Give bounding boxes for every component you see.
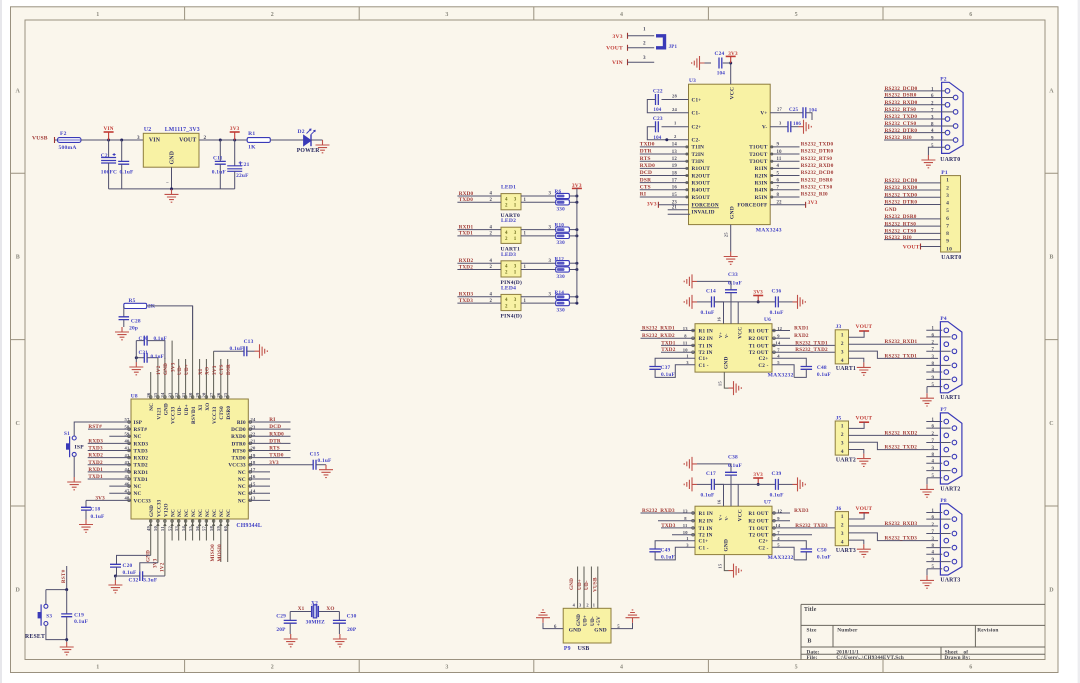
svg-text:0.1uF: 0.1uF: [212, 169, 227, 175]
svg-text:VOUT: VOUT: [903, 244, 920, 250]
svg-text:C36: C36: [772, 288, 782, 294]
svg-text:J5: J5: [836, 415, 842, 421]
wire P8 pin5 ground drop: [926, 569, 928, 576]
svg-text:2K: 2K: [148, 304, 156, 310]
svg-text:TXD1: TXD1: [459, 231, 474, 237]
svg-text:46: 46: [125, 481, 130, 486]
svg-text:RS232_RTS0: RS232_RTS0: [885, 107, 917, 113]
svg-text:NC: NC: [171, 509, 177, 517]
svg-text:RTS0: RTS0: [232, 448, 246, 454]
svg-text:GND: GND: [576, 614, 582, 626]
svg-text:6: 6: [946, 216, 949, 222]
svg-text:1: 1: [946, 178, 949, 184]
wire RXD0 net U8 right: [248, 431, 290, 437]
svg-text:UD+: UD+: [184, 404, 190, 415]
svg-text:RST#: RST#: [61, 569, 67, 583]
svg-text:NC: NC: [134, 491, 142, 497]
svg-text:POWER: POWER: [297, 148, 321, 154]
capacitor C38 0.1uF: [697, 455, 743, 507]
svg-text:U3: U3: [689, 78, 696, 84]
svg-text:57: 57: [125, 417, 130, 422]
wire resistors to 3V3 rail: [569, 195, 578, 204]
U8 top net labels: [156, 362, 232, 375]
svg-text:3: 3: [946, 193, 949, 199]
svg-text:GND: GND: [885, 207, 897, 213]
svg-text:49: 49: [146, 526, 151, 531]
wire RTS net U8 right: [248, 446, 290, 452]
svg-text:RXD2: RXD2: [459, 258, 474, 264]
svg-text:DCD: DCD: [640, 170, 652, 176]
svg-text:29: 29: [195, 392, 200, 397]
svg-text:NC: NC: [238, 477, 246, 483]
svg-text:T1 IN: T1 IN: [699, 526, 713, 532]
svg-text:1V2: 1V2: [160, 562, 166, 572]
wire TXD0 net U8 right: [248, 453, 290, 459]
svg-text:6: 6: [554, 625, 557, 630]
svg-text:V+: V+: [718, 514, 723, 520]
svg-text:T1OUT: T1OUT: [749, 145, 768, 151]
wire P1 RS232_TXD0 net: [884, 192, 941, 198]
svg-text:22uF: 22uF: [236, 173, 249, 179]
svg-text:File:: File:: [807, 655, 818, 661]
capacitor C50 0.1uF: [772, 536, 831, 561]
svg-text:R1OUT: R1OUT: [692, 166, 711, 172]
ground LED cathode: [316, 140, 330, 153]
svg-text:VOUT: VOUT: [856, 506, 873, 512]
svg-text:48: 48: [125, 496, 130, 501]
net label 3V3 U3 FORCEOFF: [770, 200, 817, 208]
svg-text:52: 52: [167, 526, 172, 531]
svg-text:26: 26: [216, 392, 221, 397]
wire P8 pin stubs: [926, 509, 950, 570]
svg-text:3V3: 3V3: [170, 362, 176, 372]
svg-text:4: 4: [490, 225, 493, 230]
wire TXD1 net U8: [88, 474, 131, 480]
svg-text:RS232_TXD1: RS232_TXD1: [795, 340, 828, 346]
svg-text:RXD3: RXD3: [88, 438, 103, 444]
svg-text:12: 12: [672, 157, 678, 162]
svg-text:R2OUT: R2OUT: [692, 173, 711, 179]
LED block LED3: [501, 252, 523, 286]
wire resistors to 3V3 rail: [569, 228, 578, 237]
svg-text:RS232_DSR0: RS232_DSR0: [801, 177, 833, 183]
svg-text:R2 OUT: R2 OUT: [748, 519, 768, 525]
wire U6 GND pin15: [717, 372, 728, 388]
wire P9 GND pin6: [543, 623, 563, 630]
svg-text:UD-: UD-: [584, 580, 590, 590]
svg-text:MAX3243: MAX3243: [756, 228, 782, 234]
svg-text:0.1uF: 0.1uF: [661, 555, 676, 561]
svg-text:9: 9: [931, 137, 934, 142]
svg-text:UART1: UART1: [836, 366, 856, 372]
svg-text:31: 31: [181, 392, 186, 397]
svg-text:330: 330: [557, 207, 566, 213]
svg-text:NC: NC: [205, 509, 211, 517]
wire U3 RS232_DTR0 net: [770, 149, 833, 155]
svg-text:C33: C33: [728, 272, 738, 278]
svg-text:104: 104: [653, 136, 661, 141]
svg-text:R1: R1: [248, 131, 255, 137]
svg-text:B: B: [1049, 255, 1053, 261]
svg-text:3: 3: [931, 116, 934, 121]
svg-text:RS232_DTR0: RS232_DTR0: [801, 149, 834, 155]
net label RST# vertical: [61, 566, 67, 590]
svg-text:UD+: UD+: [184, 364, 190, 375]
svg-text:R1 OUT: R1 OUT: [748, 329, 768, 335]
svg-text:C17: C17: [706, 471, 716, 477]
svg-text:A: A: [16, 88, 21, 94]
net label 3V3 at JP1 pin1: [613, 33, 628, 40]
svg-text:16: 16: [672, 186, 678, 191]
net label VOUT J6: [849, 506, 873, 519]
wire VUSB to fuse: [55, 139, 58, 141]
svg-text:S1: S1: [64, 431, 70, 437]
wire resistors to 3V3 rail: [569, 295, 578, 304]
capacitor C28 20p: [119, 306, 141, 332]
crystal X2 30MHZ: [290, 600, 339, 625]
svg-text:R4OUT: R4OUT: [692, 188, 711, 194]
ground left of C38: [684, 457, 697, 471]
svg-text:4: 4: [505, 197, 508, 202]
svg-text:10: 10: [777, 150, 783, 155]
wire P7 pin stubs: [926, 418, 950, 479]
svg-text:V+: V+: [718, 332, 723, 338]
svg-text:RS232_DSR0: RS232_DSR0: [885, 93, 917, 99]
svg-text:T1 OUT: T1 OUT: [749, 526, 769, 532]
LED block LED2: [501, 218, 522, 252]
svg-text:8: 8: [931, 123, 934, 128]
svg-text:RS232_TXD3: RS232_TXD3: [885, 536, 918, 542]
resistor 330 second: [521, 299, 569, 314]
wire P2 RS232_CTS0 net: [884, 121, 953, 127]
svg-text:U6: U6: [764, 317, 771, 323]
svg-text:60: 60: [223, 526, 228, 531]
svg-text:VCC: VCC: [738, 327, 744, 339]
capacitor C18 0.1uF on U8 VCC33 pin48: [81, 495, 131, 519]
svg-text:14: 14: [775, 341, 780, 346]
resistor 330 second: [521, 198, 569, 213]
svg-text:5: 5: [795, 665, 798, 671]
svg-text:2: 2: [932, 341, 935, 346]
svg-text:12: 12: [777, 326, 782, 331]
svg-text:7: 7: [932, 348, 935, 353]
svg-text:C:\Users\..\CH9344EVT.Sch: C:\Users\..\CH9344EVT.Sch: [836, 655, 904, 661]
svg-text:PIN4(D): PIN4(D): [501, 313, 523, 320]
svg-text:330: 330: [557, 274, 566, 280]
svg-text:15: 15: [672, 193, 678, 198]
svg-text:VCC33: VCC33: [156, 499, 162, 517]
wire U3 RS232_RXD0 net: [770, 163, 834, 169]
svg-text:5: 5: [932, 565, 935, 570]
svg-text:0.1uF: 0.1uF: [230, 346, 245, 352]
svg-text:RS232_RI0: RS232_RI0: [801, 192, 828, 198]
svg-text:3: 3: [932, 537, 935, 542]
capacitor C48 0.1uF: [772, 354, 831, 379]
svg-text:27: 27: [777, 107, 782, 112]
wire RXD3 to LED4: [457, 292, 501, 298]
resistor 330 second: [521, 232, 569, 247]
svg-text:0.1uF: 0.1uF: [318, 458, 333, 464]
svg-text:3: 3: [549, 192, 552, 197]
svg-text:2: 2: [932, 432, 935, 437]
svg-text:VUSB: VUSB: [593, 577, 599, 592]
svg-text:22: 22: [777, 201, 783, 206]
wire RXD0 to LED1: [457, 191, 501, 197]
connector P1 header UART0: [941, 170, 962, 261]
svg-text:4: 4: [946, 201, 949, 207]
wire RS232 RS232_TXD1 from U6 T1OUT: [772, 340, 840, 346]
svg-text:C23: C23: [653, 116, 663, 122]
svg-text:34: 34: [160, 392, 165, 397]
svg-text:V-: V-: [724, 515, 729, 520]
svg-text:X2: X2: [311, 600, 318, 606]
svg-text:T2IN: T2IN: [692, 152, 705, 158]
jumper JP1: [656, 36, 678, 50]
ground P9 left: [536, 610, 550, 623]
svg-text:3V3: 3V3: [647, 202, 657, 208]
svg-text:RST#: RST#: [88, 424, 102, 430]
svg-text:33: 33: [167, 392, 172, 397]
svg-text:CTS: CTS: [640, 184, 651, 190]
svg-text:TXD2: TXD2: [134, 463, 149, 469]
resistor R10 330: [521, 223, 569, 233]
svg-text:36: 36: [146, 392, 151, 397]
svg-text:9: 9: [777, 143, 780, 148]
svg-text:1: 1: [841, 332, 844, 338]
svg-text:0.1uF: 0.1uF: [728, 463, 743, 469]
svg-text:C: C: [16, 421, 21, 427]
svg-text:20P: 20P: [347, 627, 357, 633]
net label VIN at JP1 pin3: [612, 59, 628, 66]
svg-text:3V3: 3V3: [212, 365, 218, 375]
IC U8 CH9344L body: [131, 394, 262, 530]
svg-text:15: 15: [717, 381, 722, 386]
svg-text:18: 18: [672, 171, 678, 176]
svg-text:DSR: DSR: [640, 177, 651, 183]
net label VOUT P1 pin10: [903, 244, 941, 251]
svg-text:3: 3: [643, 55, 646, 61]
svg-text:0.1uF: 0.1uF: [74, 619, 89, 625]
svg-text:2: 2: [490, 232, 493, 237]
svg-text:GND: GND: [170, 151, 176, 164]
capacitor C49 0.1uF: [649, 536, 695, 561]
ground right of C36: [793, 295, 806, 309]
svg-text:C37: C37: [661, 365, 671, 371]
svg-text:0.1uF: 0.1uF: [154, 336, 168, 342]
svg-text:NC: NC: [198, 509, 204, 517]
svg-text:RS232_TXD1: RS232_TXD1: [885, 353, 918, 359]
svg-text:MISO0: MISO0: [210, 544, 216, 562]
svg-text:0.1uF: 0.1uF: [120, 170, 135, 176]
svg-text:41: 41: [125, 446, 130, 451]
svg-text:47: 47: [125, 488, 130, 493]
svg-text:RI: RI: [640, 192, 646, 198]
svg-text:P8: P8: [940, 498, 946, 504]
svg-text:3: 3: [549, 259, 552, 264]
capacitor C25 104 on V+: [770, 107, 817, 120]
wire U7 R2OUT: [772, 516, 790, 521]
svg-text:330: 330: [557, 307, 566, 313]
svg-text:1: 1: [841, 423, 844, 429]
net label VOUT at JP1 pin2: [606, 45, 627, 52]
svg-text:6: 6: [932, 425, 935, 430]
wire U6 T2IN: [661, 347, 695, 353]
svg-text:0.1uF: 0.1uF: [817, 372, 832, 378]
svg-text:4: 4: [490, 192, 493, 197]
wire U7 GND pin15: [717, 555, 728, 571]
svg-text:4: 4: [932, 460, 935, 465]
switch S3 RESET: [25, 588, 68, 640]
wire LED cathode to ground: [311, 139, 323, 141]
U3 pin entry circles: [686, 146, 773, 198]
svg-text:10: 10: [946, 246, 952, 252]
svg-text:RS232_DTR0: RS232_DTR0: [885, 128, 918, 134]
svg-text:17: 17: [672, 178, 678, 183]
resistor R5 2K: [124, 298, 193, 340]
svg-text:R5IN: R5IN: [755, 195, 768, 201]
svg-text:57: 57: [202, 526, 207, 531]
svg-text:R2IN: R2IN: [755, 173, 768, 179]
svg-text:RXD3: RXD3: [794, 508, 809, 514]
wire TXD to U7 T1IN: [661, 523, 695, 529]
connector P7 DB9 UART2: [940, 407, 962, 492]
svg-text:NC: NC: [149, 403, 155, 411]
svg-text:1: 1: [514, 204, 517, 209]
wire U8 NC46 NC47: [109, 486, 131, 493]
svg-text:1: 1: [593, 603, 595, 608]
svg-text:6: 6: [931, 94, 934, 99]
svg-text:R1 OUT: R1 OUT: [748, 511, 768, 517]
svg-text:T1IN: T1IN: [692, 145, 705, 151]
svg-text:UART3: UART3: [940, 577, 960, 583]
svg-text:RXD3: RXD3: [459, 292, 474, 298]
ground C15: [319, 465, 333, 478]
svg-text:51: 51: [160, 526, 165, 531]
svg-text:3: 3: [841, 349, 844, 355]
ground left of C33: [684, 274, 697, 288]
svg-text:C38: C38: [728, 455, 738, 461]
wire U7 T2OUT: [772, 530, 812, 535]
svg-text:30: 30: [188, 392, 193, 397]
svg-text:C1+: C1+: [692, 97, 702, 103]
svg-text:1: 1: [524, 265, 527, 270]
ground U7: [729, 564, 742, 578]
svg-text:C1-: C1-: [692, 111, 701, 117]
svg-text:14: 14: [672, 143, 678, 148]
svg-text:C48: C48: [817, 365, 827, 371]
svg-text:NC: NC: [212, 509, 218, 517]
svg-text:RS232_TXD0: RS232_TXD0: [885, 114, 918, 120]
svg-text:2: 2: [841, 432, 844, 438]
ground C29: [284, 634, 298, 647]
svg-text:P2: P2: [940, 76, 947, 82]
wire JP1 pin1: [628, 27, 655, 36]
resistor R1 1K: [247, 131, 270, 151]
svg-text:104: 104: [653, 108, 661, 113]
svg-text:T1 OUT: T1 OUT: [749, 343, 769, 349]
ground left of C24: [692, 56, 705, 70]
svg-text:RXD0: RXD0: [459, 191, 474, 197]
wire RS232 RS232_RXD3 to U7 R1IN: [641, 508, 696, 514]
svg-text:DTR: DTR: [640, 149, 652, 155]
wire U3 RS232_TXD0 net: [770, 142, 833, 148]
svg-text:C10: C10: [139, 336, 149, 342]
svg-text:3: 3: [514, 231, 517, 236]
svg-text:3.3uF: 3.3uF: [143, 577, 158, 583]
svg-text:C2 -: C2 -: [758, 363, 768, 369]
svg-text:C2 -: C2 -: [758, 545, 768, 551]
IC U6 MAX3232 body: [692, 317, 794, 379]
U8 bottom pin numbers: [146, 523, 230, 531]
svg-text:19: 19: [672, 164, 678, 169]
svg-text:RS232_DTR0: RS232_DTR0: [885, 200, 918, 206]
svg-text:B: B: [16, 255, 20, 261]
svg-text:VCC33: VCC33: [171, 406, 177, 424]
connector J5 header UART2: [835, 415, 856, 463]
svg-text:FORCEOFF: FORCEOFF: [737, 203, 767, 209]
svg-text:2: 2: [643, 41, 646, 47]
svg-text:1: 1: [524, 299, 527, 304]
svg-text:25: 25: [223, 392, 228, 397]
svg-text:3: 3: [445, 665, 448, 671]
svg-text:27: 27: [209, 392, 214, 397]
svg-text:54: 54: [181, 526, 186, 531]
wire P1 GND net: [885, 207, 897, 213]
svg-text:7: 7: [932, 439, 935, 444]
svg-text:6: 6: [932, 333, 935, 338]
U8 left pin names: [125, 417, 152, 504]
svg-text:12: 12: [777, 508, 782, 513]
svg-text:GND: GND: [569, 628, 582, 634]
svg-text:CTS: CTS: [219, 364, 225, 375]
svg-text:GND: GND: [569, 578, 575, 590]
capacitor C13 0.1uF: [214, 339, 255, 356]
svg-text:ISP: ISP: [75, 444, 85, 450]
svg-text:MOSI0: MOSI0: [217, 544, 223, 562]
regulator U2 LM1117_3V3: [137, 127, 207, 167]
wire P2 RS232_DCD0 net: [884, 86, 945, 92]
svg-text:28: 28: [202, 392, 207, 397]
svg-text:1: 1: [932, 509, 935, 514]
U8 bottom pin names: [149, 499, 232, 517]
svg-text:TXD3: TXD3: [88, 446, 103, 452]
svg-text:20p: 20p: [129, 326, 138, 332]
wire P7 pin5 ground drop: [926, 478, 928, 485]
svg-text:50: 50: [153, 526, 158, 531]
svg-text:2: 2: [841, 341, 844, 347]
wire U3 DCD net: [640, 170, 689, 176]
svg-text:VOUT: VOUT: [179, 138, 196, 144]
svg-text:1V2: 1V2: [156, 365, 162, 375]
svg-text:4: 4: [505, 231, 508, 236]
svg-text:0.1uF: 0.1uF: [661, 372, 676, 378]
svg-text:3V3: 3V3: [95, 495, 105, 501]
svg-text:RXD0: RXD0: [231, 434, 246, 440]
capacitor C30 20P: [333, 612, 357, 635]
svg-text:RS232_RI0: RS232_RI0: [885, 235, 912, 241]
net label MISO0 MOSI0: [210, 544, 223, 562]
ground P8: [920, 575, 934, 588]
svg-text:NC: NC: [238, 491, 246, 497]
svg-text:4: 4: [620, 665, 623, 671]
svg-text:C15: C15: [310, 452, 320, 458]
ground C20: [108, 576, 122, 593]
svg-text:CTS0: CTS0: [219, 406, 225, 420]
svg-text:TXD3: TXD3: [661, 523, 676, 529]
svg-text:C29: C29: [276, 614, 286, 620]
svg-text:10: 10: [683, 348, 688, 353]
svg-text:11: 11: [683, 341, 688, 346]
